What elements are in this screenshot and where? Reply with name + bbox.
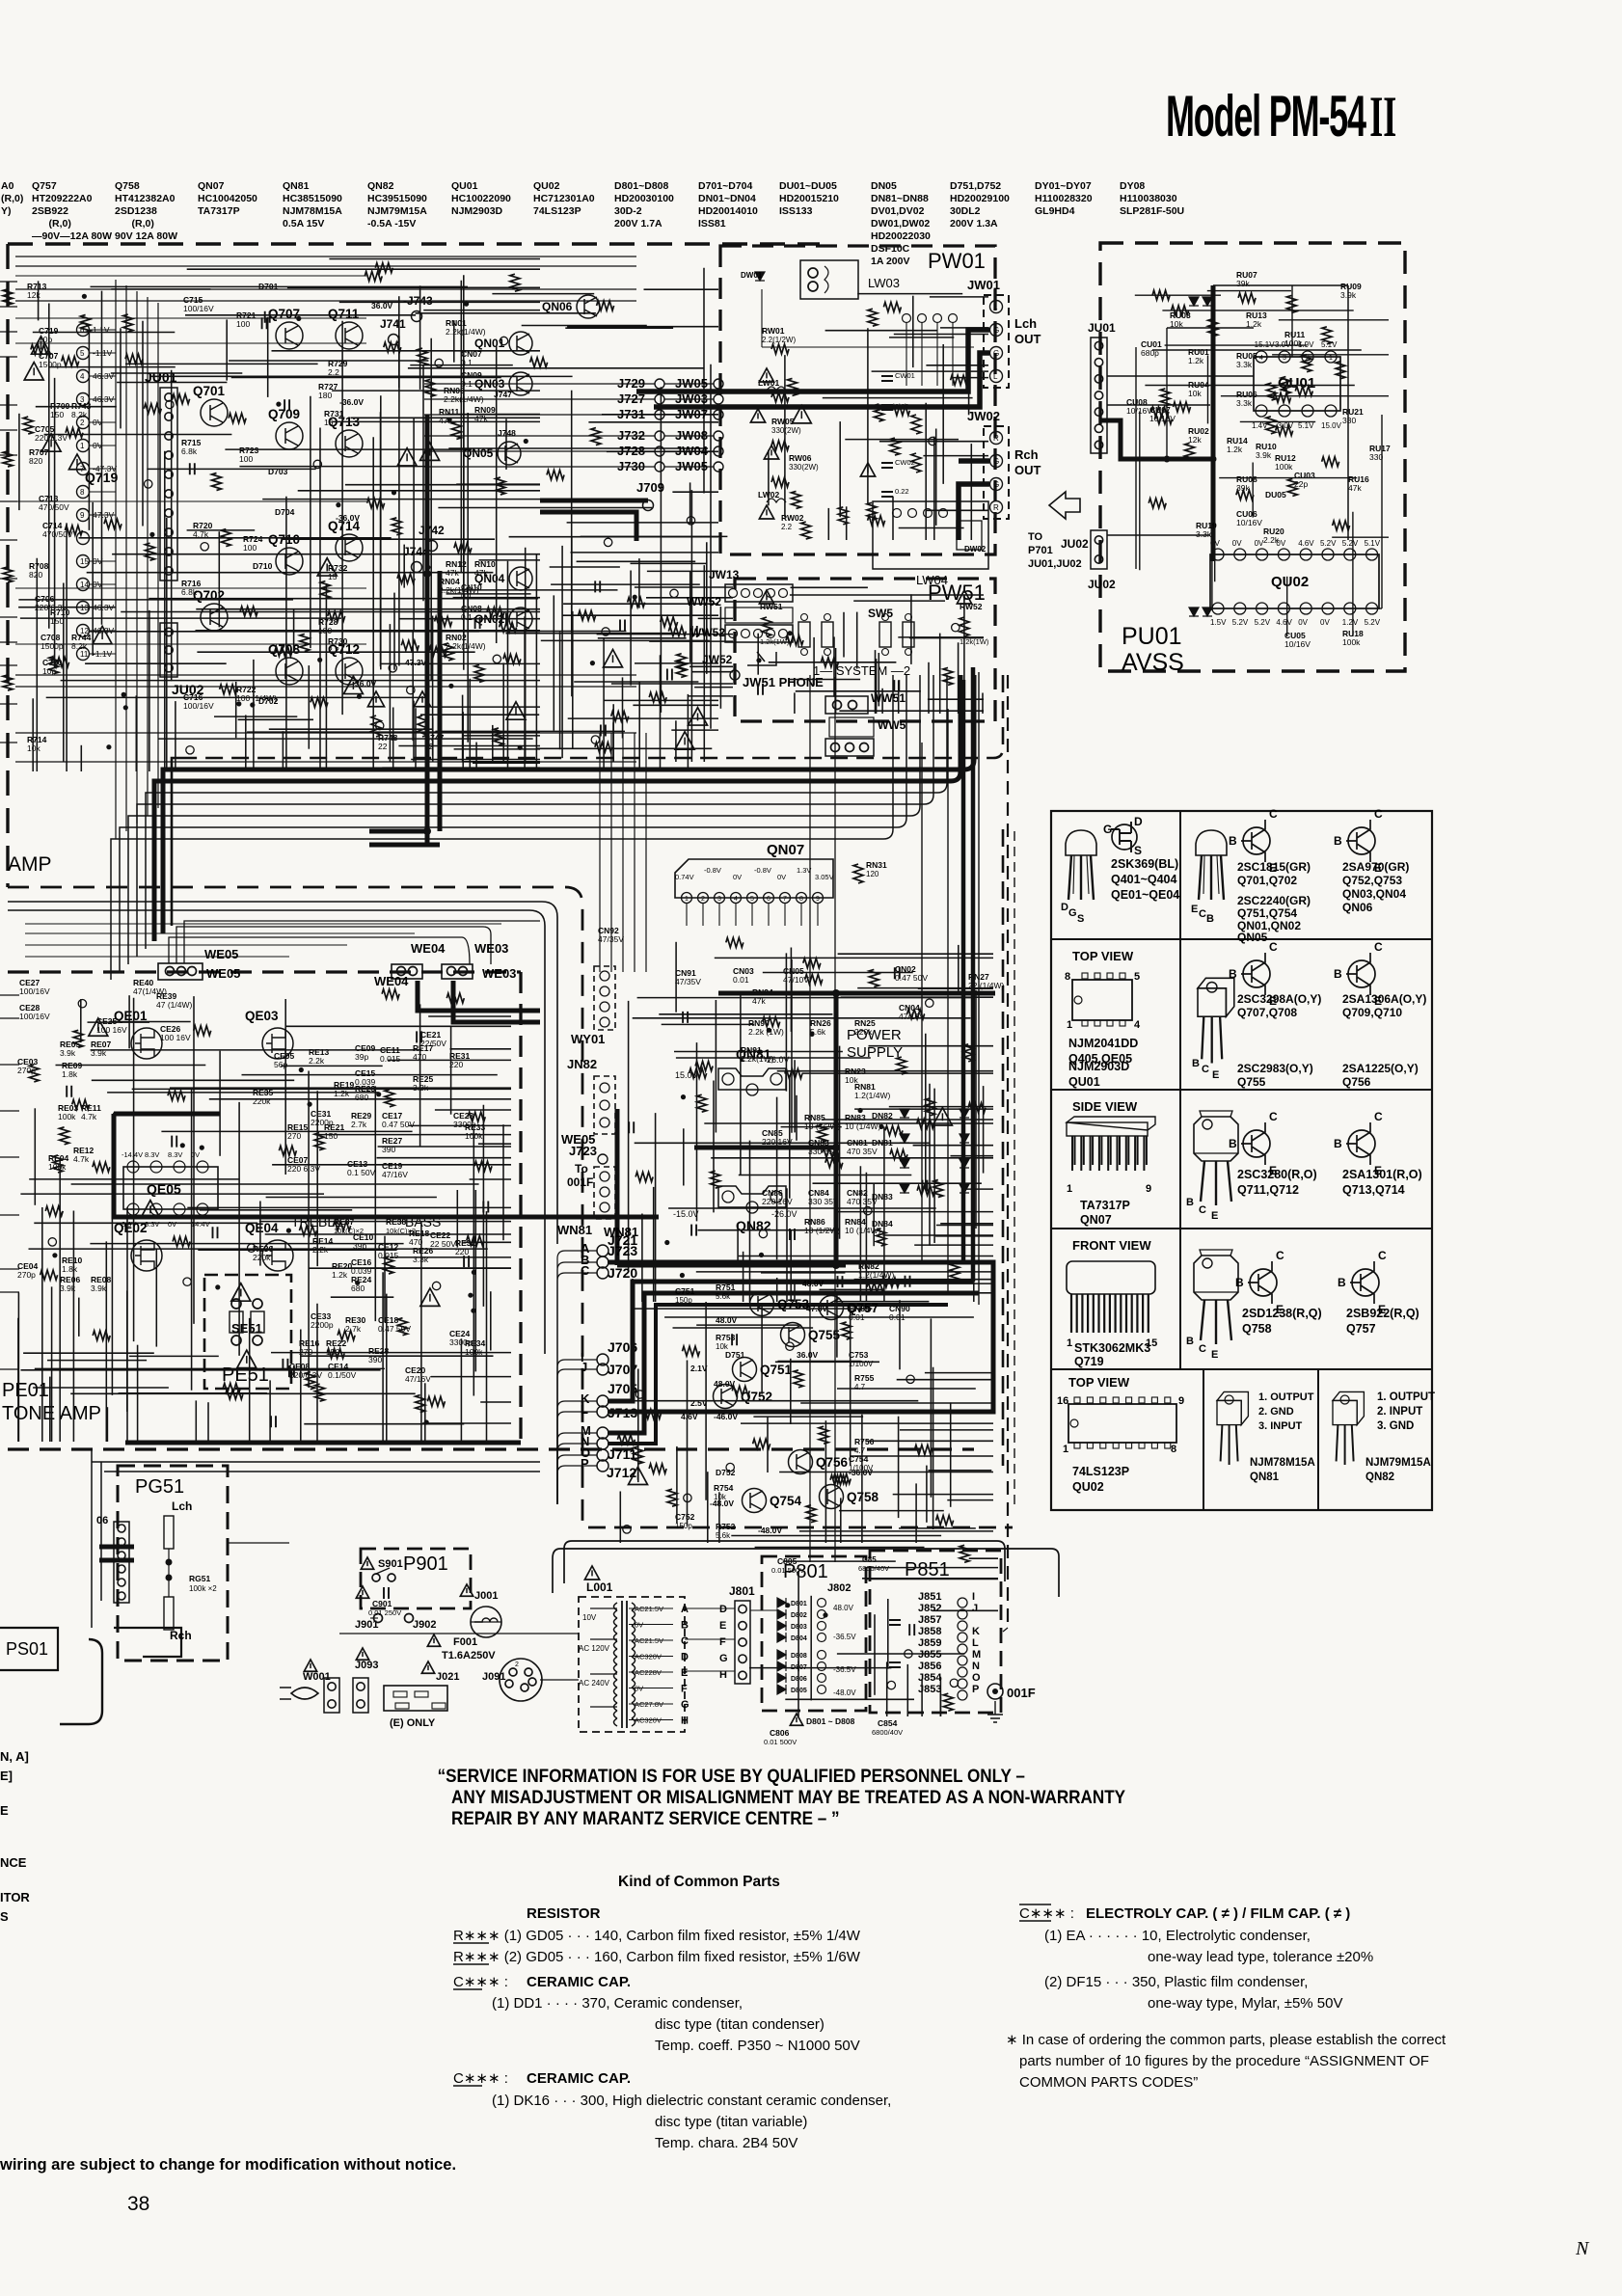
svg-text:D: D bbox=[681, 1652, 689, 1663]
wire bbox=[676, 1446, 678, 1524]
wire bbox=[872, 370, 988, 372]
svg-text:10/16V: 10/16V bbox=[1236, 518, 1262, 527]
svg-text:HD20015210: HD20015210 bbox=[779, 193, 839, 204]
wire bbox=[691, 671, 733, 673]
wire bbox=[269, 1380, 271, 1442]
wire bbox=[611, 1400, 918, 1402]
component bbox=[842, 1322, 852, 1339]
component bbox=[45, 1206, 63, 1216]
component bbox=[950, 1263, 960, 1281]
svg-text:8: 8 bbox=[799, 896, 803, 903]
transistor Q754 bbox=[743, 1489, 767, 1513]
wire bbox=[111, 288, 210, 290]
wire bbox=[15, 300, 636, 302]
wire bbox=[794, 692, 796, 714]
component bbox=[823, 1148, 840, 1158]
wire bbox=[0, 994, 19, 996]
bus wire bbox=[128, 816, 183, 964]
component bbox=[683, 1012, 688, 1023]
svg-text:120: 120 bbox=[866, 870, 879, 878]
svg-text:06: 06 bbox=[96, 1515, 108, 1526]
svg-text:ISS81: ISS81 bbox=[698, 218, 726, 230]
svg-text:(R,0): (R,0) bbox=[115, 218, 154, 230]
wire bbox=[266, 1197, 437, 1199]
node bbox=[77, 440, 90, 452]
component bbox=[635, 1173, 653, 1182]
wire bbox=[109, 1021, 191, 1023]
wire bbox=[823, 397, 973, 399]
wire bbox=[420, 714, 539, 716]
wire bbox=[649, 640, 733, 642]
wire bbox=[866, 1440, 993, 1442]
wire bbox=[0, 1156, 19, 1158]
wire bbox=[505, 419, 507, 470]
wire bbox=[331, 1296, 394, 1298]
transistor Q752 bbox=[714, 1385, 738, 1409]
wire bbox=[34, 1108, 36, 1205]
wire bbox=[66, 523, 68, 771]
svg-text:1.2V: 1.2V bbox=[1342, 618, 1359, 627]
wire bbox=[25, 944, 347, 946]
wire bbox=[332, 420, 540, 422]
svg-text:JN82: JN82 bbox=[567, 1057, 597, 1071]
wire bbox=[785, 1698, 914, 1700]
component bbox=[629, 1121, 634, 1133]
transistor Q712 bbox=[336, 658, 363, 685]
transistor QN06 bbox=[577, 295, 600, 318]
svg-text:—90V—12A 80W: —90V—12A 80W bbox=[32, 230, 112, 242]
svg-text:E: E bbox=[0, 1803, 9, 1818]
svg-text:P901: P901 bbox=[403, 1553, 448, 1575]
wire bbox=[1152, 349, 1362, 351]
wire bbox=[316, 1134, 511, 1136]
svg-text:2SB922(R,Q): 2SB922(R,Q) bbox=[1346, 1307, 1419, 1320]
svg-text:9: 9 bbox=[1146, 1183, 1151, 1195]
component bbox=[792, 491, 801, 508]
wire bbox=[790, 1230, 792, 1303]
svg-text:15: 15 bbox=[80, 557, 89, 566]
svg-text:100/16V: 100/16V bbox=[183, 304, 214, 313]
wire bbox=[122, 1215, 413, 1217]
svg-text:F001: F001 bbox=[453, 1636, 477, 1648]
wire bbox=[865, 1173, 867, 1302]
wire bbox=[557, 1273, 597, 1504]
svg-text:-14.4V: -14.4V bbox=[122, 1150, 143, 1159]
component bbox=[887, 1681, 895, 1688]
connector JU01 main bbox=[160, 388, 177, 581]
wire bbox=[939, 1677, 941, 1716]
wire bbox=[857, 987, 993, 989]
wire bbox=[1211, 544, 1213, 611]
svg-text:1.3V: 1.3V bbox=[797, 866, 811, 875]
svg-text:1.5V: 1.5V bbox=[1210, 618, 1227, 627]
svg-text:8: 8 bbox=[80, 488, 85, 497]
wire bbox=[374, 1086, 376, 1321]
svg-text:QN06: QN06 bbox=[1342, 901, 1373, 914]
wire bbox=[132, 1088, 511, 1090]
thick bus loop bbox=[608, 1262, 993, 1412]
wire bbox=[565, 327, 673, 329]
svg-text:100k ×2: 100k ×2 bbox=[189, 1584, 217, 1593]
component bbox=[336, 502, 340, 507]
wire bbox=[225, 448, 472, 450]
wire bbox=[33, 332, 176, 334]
thick wire v4 bbox=[971, 667, 976, 1282]
svg-text:150p: 150p bbox=[675, 1522, 692, 1530]
wire bbox=[761, 1304, 763, 1394]
svg-text:1A 200V: 1A 200V bbox=[871, 256, 909, 267]
svg-text:48.0V: 48.0V bbox=[714, 1379, 736, 1389]
component bbox=[468, 1293, 473, 1298]
common parts right column bbox=[1006, 1904, 1446, 2091]
wire bbox=[899, 527, 964, 529]
svg-text:2.2k(1/4W): 2.2k(1/4W) bbox=[446, 327, 486, 337]
descender wires bbox=[599, 733, 601, 972]
wire bbox=[874, 1614, 876, 1695]
node bbox=[77, 579, 90, 591]
WE riser wires bbox=[169, 921, 540, 964]
svg-text:Q701,Q702: Q701,Q702 bbox=[1237, 874, 1297, 887]
svg-text:5.6k: 5.6k bbox=[716, 1292, 731, 1301]
wire bbox=[0, 703, 17, 705]
component bbox=[385, 1090, 394, 1107]
node bbox=[77, 417, 90, 429]
wire bbox=[469, 679, 471, 771]
PW01 board outline bbox=[720, 246, 995, 554]
svg-text:Q719: Q719 bbox=[1074, 1355, 1104, 1368]
svg-text:WE03: WE03 bbox=[474, 941, 508, 956]
svg-text:J: J bbox=[581, 1360, 587, 1374]
wire bbox=[51, 1286, 53, 1442]
component bbox=[231, 1283, 251, 1301]
voltage selector bbox=[500, 1659, 542, 1701]
component bbox=[806, 1505, 816, 1523]
wire bbox=[719, 607, 721, 709]
svg-text:74LS123P: 74LS123P bbox=[533, 205, 581, 217]
wire bbox=[541, 639, 710, 641]
component bbox=[602, 628, 609, 635]
wire bbox=[448, 447, 708, 449]
component bbox=[276, 402, 281, 407]
svg-text:D: D bbox=[719, 1604, 727, 1615]
svg-text:10V: 10V bbox=[582, 1613, 597, 1622]
wire bbox=[164, 451, 166, 771]
wire bbox=[983, 1086, 985, 1174]
wire bbox=[940, 1223, 993, 1225]
svg-text:1.2k: 1.2k bbox=[332, 1270, 348, 1280]
svg-text:0.22: 0.22 bbox=[895, 487, 909, 496]
component bbox=[933, 1180, 943, 1198]
svg-text:parts number of 10 figures: parts number of 10 figures by the proced… bbox=[1019, 2053, 1429, 2069]
wire bbox=[607, 450, 718, 452]
wire bbox=[78, 1298, 80, 1337]
component bbox=[917, 1119, 934, 1128]
component bbox=[190, 463, 195, 474]
component bbox=[475, 617, 480, 629]
component bbox=[220, 685, 237, 694]
svg-text:G: G bbox=[719, 1653, 728, 1664]
svg-text:H110028320: H110028320 bbox=[1035, 193, 1093, 204]
component bbox=[289, 1365, 294, 1377]
wire bbox=[231, 377, 501, 379]
bus wire bbox=[154, 781, 183, 941]
component bbox=[890, 1149, 907, 1159]
svg-text:0.039: 0.039 bbox=[355, 1077, 376, 1087]
wire bbox=[350, 417, 540, 419]
svg-text:QU02: QU02 bbox=[1072, 1480, 1104, 1494]
wire bbox=[72, 1211, 74, 1443]
wire bbox=[662, 1023, 755, 1025]
svg-text:4: 4 bbox=[734, 896, 738, 903]
wire bbox=[647, 570, 718, 572]
svg-text:2SA1306A(O,Y): 2SA1306A(O,Y) bbox=[1342, 992, 1426, 1006]
wire bbox=[0, 742, 17, 743]
svg-text:36.0V: 36.0V bbox=[797, 1350, 819, 1360]
wire bbox=[975, 990, 977, 1229]
component bbox=[384, 342, 401, 352]
component bbox=[474, 1161, 492, 1171]
svg-text:R754: R754 bbox=[714, 1483, 734, 1493]
svg-text:NJM78M15A: NJM78M15A bbox=[283, 205, 342, 217]
svg-text:W001: W001 bbox=[303, 1671, 331, 1683]
svg-text:8.3V: 8.3V bbox=[168, 1150, 182, 1159]
svg-text:C: C bbox=[1199, 1204, 1206, 1216]
svg-text:2: 2 bbox=[515, 1661, 519, 1668]
svg-text:QN82: QN82 bbox=[367, 180, 394, 192]
timer QU02 bbox=[1210, 554, 1379, 608]
wire bbox=[0, 578, 17, 580]
wire bbox=[92, 1449, 101, 1628]
svg-text:ITOR: ITOR bbox=[0, 1890, 30, 1904]
long wire v5 bbox=[978, 672, 980, 1305]
svg-text:8: 8 bbox=[1065, 971, 1070, 983]
wire bbox=[660, 655, 662, 771]
wire bbox=[229, 360, 428, 362]
component bbox=[689, 1068, 707, 1078]
wire bbox=[611, 683, 733, 685]
svg-text:JW01: JW01 bbox=[967, 278, 1000, 292]
svg-text:1500p: 1500p bbox=[39, 360, 62, 369]
svg-text:WE05: WE05 bbox=[206, 966, 240, 981]
wire bbox=[673, 1327, 814, 1329]
svg-text:0.47 50V: 0.47 50V bbox=[382, 1120, 415, 1129]
wire bbox=[799, 1530, 993, 1532]
component bbox=[173, 1237, 190, 1247]
svg-text:HC38515090: HC38515090 bbox=[283, 193, 342, 204]
wire bbox=[619, 1492, 621, 1544]
component bbox=[240, 607, 257, 616]
wire bbox=[438, 589, 618, 591]
wire bbox=[757, 634, 759, 675]
component bbox=[595, 581, 600, 592]
wire bbox=[783, 1560, 896, 1562]
wire bbox=[577, 560, 696, 562]
component bbox=[493, 655, 500, 662]
svg-text:Q751,Q754: Q751,Q754 bbox=[1237, 906, 1297, 920]
svg-text:1: 1 bbox=[1067, 1183, 1072, 1195]
component bbox=[250, 702, 255, 707]
wire bbox=[0, 356, 17, 358]
wire bbox=[958, 642, 960, 714]
wire bbox=[166, 518, 168, 771]
component bbox=[675, 732, 694, 749]
svg-text:G: G bbox=[993, 457, 999, 466]
component bbox=[821, 658, 838, 667]
diode bbox=[1189, 297, 1199, 306]
wire bbox=[272, 350, 541, 352]
common parts left column bbox=[453, 1905, 891, 2151]
wire bbox=[304, 1423, 464, 1425]
svg-text:2.2: 2.2 bbox=[328, 645, 339, 655]
wire bbox=[743, 1252, 744, 1302]
component bbox=[494, 728, 503, 745]
table row1 2SK369 cell bbox=[1066, 830, 1096, 900]
svg-text:3.9k: 3.9k bbox=[60, 1048, 76, 1058]
svg-text:REPAIR BY ANY MARANTZ SERVICE: REPAIR BY ANY MARANTZ SERVICE CENTRE – ” bbox=[451, 1808, 840, 1828]
svg-text:47/35V: 47/35V bbox=[675, 977, 701, 986]
wire bbox=[822, 1119, 993, 1121]
wire bbox=[763, 972, 913, 974]
component bbox=[183, 1278, 191, 1285]
svg-text:1: 1 bbox=[80, 442, 85, 450]
svg-text:100/16V: 100/16V bbox=[19, 986, 50, 996]
wire bbox=[262, 499, 540, 500]
svg-text:(2) DF15 · · · 350, Plasti: (2) DF15 · · · 350, Plastic film condens… bbox=[1044, 1974, 1308, 1990]
svg-text:QN81: QN81 bbox=[283, 180, 310, 192]
wire bbox=[0, 500, 17, 502]
svg-text:1— SYSTEM —2: 1— SYSTEM —2 bbox=[813, 663, 910, 678]
svg-text:STK3062MK3: STK3062MK3 bbox=[1074, 1341, 1150, 1355]
wire bbox=[92, 502, 94, 656]
wire bbox=[820, 1288, 882, 1290]
svg-text:D801 ~ D808: D801 ~ D808 bbox=[806, 1716, 855, 1726]
wire bbox=[827, 508, 829, 540]
wire bbox=[761, 1272, 845, 1274]
component bbox=[398, 1318, 408, 1336]
wire bbox=[963, 1188, 993, 1190]
component bbox=[275, 647, 292, 657]
wire bbox=[581, 535, 728, 537]
svg-text:NJM2041DD: NJM2041DD bbox=[1068, 1037, 1138, 1050]
wire bbox=[198, 1249, 396, 1251]
power supply labels bbox=[598, 926, 1004, 1322]
component bbox=[838, 1276, 843, 1287]
wire bbox=[696, 1324, 798, 1326]
wire bbox=[309, 1267, 511, 1269]
wire bbox=[157, 303, 159, 808]
wire bbox=[126, 1207, 128, 1442]
node bbox=[77, 486, 90, 499]
svg-text:(R,0): (R,0) bbox=[32, 218, 71, 230]
wire bbox=[838, 953, 993, 955]
svg-text:C751: C751 bbox=[675, 1286, 695, 1296]
wire bbox=[813, 637, 815, 686]
svg-text:Q754: Q754 bbox=[770, 1494, 802, 1508]
svg-text:L: L bbox=[993, 303, 998, 311]
svg-text:C752: C752 bbox=[675, 1512, 695, 1522]
component bbox=[265, 311, 270, 323]
wire bbox=[963, 595, 965, 687]
wire bbox=[689, 665, 733, 667]
component bbox=[168, 1091, 185, 1100]
component bbox=[376, 721, 384, 729]
tone labels bbox=[17, 978, 486, 1384]
component bbox=[597, 301, 614, 311]
wire bbox=[410, 365, 513, 366]
wire bbox=[193, 996, 195, 1324]
wire bbox=[612, 704, 614, 762]
component bbox=[759, 1253, 764, 1257]
wire bbox=[29, 1178, 239, 1180]
svg-text:5.1V: 5.1V bbox=[1365, 539, 1381, 548]
svg-text:-36.5V: -36.5V bbox=[833, 1665, 856, 1674]
wire bbox=[107, 1092, 379, 1094]
connector WE03 bbox=[442, 964, 473, 979]
wire bbox=[856, 612, 858, 669]
svg-text:E: E bbox=[1212, 1069, 1219, 1081]
wire bbox=[956, 1292, 993, 1294]
svg-text:S: S bbox=[0, 1909, 9, 1924]
wire bbox=[209, 1098, 511, 1100]
svg-text:330(2W): 330(2W) bbox=[789, 463, 819, 472]
svg-text:J741: J741 bbox=[380, 317, 406, 331]
wire bbox=[149, 610, 150, 771]
wire bbox=[446, 593, 531, 595]
svg-text:QN82: QN82 bbox=[1365, 1472, 1394, 1483]
table row1 2SC1815 cell bbox=[1196, 830, 1227, 900]
component bbox=[867, 502, 877, 520]
wire bbox=[207, 1402, 209, 1442]
svg-text:3.3k: 3.3k bbox=[1196, 529, 1212, 539]
svg-text:DW01,DW02: DW01,DW02 bbox=[871, 218, 930, 230]
wire bbox=[101, 291, 103, 625]
svg-text:S901: S901 bbox=[378, 1558, 403, 1570]
wire bbox=[490, 1291, 492, 1350]
svg-text:3: 3 bbox=[1283, 355, 1286, 362]
wire bbox=[187, 268, 540, 270]
wire bbox=[638, 682, 640, 771]
svg-text:330: 330 bbox=[1369, 452, 1383, 462]
wire bbox=[432, 616, 434, 756]
svg-text:-0.5A -15V: -0.5A -15V bbox=[367, 218, 416, 230]
component bbox=[667, 669, 672, 681]
wire bbox=[195, 1400, 197, 1442]
svg-text:B: B bbox=[1229, 1137, 1237, 1150]
bus wire bbox=[137, 804, 183, 957]
svg-text:disc type (titan condenser): disc type (titan condenser) bbox=[655, 2016, 825, 2033]
wire bbox=[899, 1527, 976, 1529]
svg-text:150p: 150p bbox=[675, 1296, 692, 1305]
wire bbox=[399, 618, 540, 620]
svg-text:R: R bbox=[993, 503, 999, 512]
wire bbox=[897, 1379, 993, 1381]
wire bbox=[1240, 420, 1315, 422]
svg-text:R∗∗∗ (1) GD05 · · · 140, Ca: R∗∗∗ (1) GD05 · · · 140, Carbon film fix… bbox=[453, 1928, 861, 1944]
svg-text:WW52: WW52 bbox=[690, 626, 725, 639]
svg-text:B: B bbox=[1229, 967, 1237, 981]
component bbox=[357, 694, 362, 699]
long wire v1 bbox=[921, 743, 923, 1263]
wire bbox=[933, 437, 935, 540]
svg-text:2SC1815(GR): 2SC1815(GR) bbox=[1237, 860, 1311, 874]
svg-text:QE01~QE04: QE01~QE04 bbox=[1111, 888, 1179, 902]
svg-text:DU01~DU05: DU01~DU05 bbox=[779, 180, 837, 192]
svg-text:O: O bbox=[972, 1672, 981, 1684]
wire bbox=[25, 932, 415, 934]
wire bbox=[664, 1316, 974, 1318]
svg-text:C854: C854 bbox=[878, 1718, 898, 1728]
svg-text:AC 120V: AC 120V bbox=[579, 1644, 610, 1653]
